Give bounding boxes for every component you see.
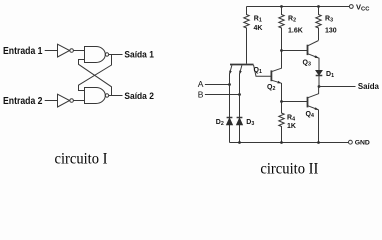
svg-text:D1: D1 [326, 71, 334, 79]
inverter 2 [58, 94, 74, 107]
wire feedback G2 to G1 [79, 60, 112, 96]
node A [228, 83, 231, 86]
wire VCC rail [247, 6, 350, 8]
wire Q3 base [282, 50, 308, 52]
svg-text:130: 130 [325, 27, 337, 34]
svg-text:R1: R1 [254, 15, 262, 23]
node output [318, 85, 321, 88]
wire input A [205, 84, 230, 86]
resistor R3 [316, 7, 337, 41]
transistor Q3 [303, 41, 320, 71]
svg-text:D3: D3 [246, 119, 254, 127]
transistor Q4 [306, 87, 319, 143]
svg-text:R3: R3 [325, 15, 333, 23]
node D3 bottom [238, 141, 241, 144]
node R2 top [280, 5, 283, 8]
node Q4 emitter [317, 141, 320, 144]
node R3 top [317, 5, 320, 8]
svg-text:B: B [198, 89, 204, 99]
svg-text:A: A [198, 79, 204, 89]
inverter 1 [58, 44, 74, 57]
resistor R1 [244, 7, 263, 64]
wire GND rail [230, 142, 349, 144]
svg-text:Q1: Q1 [254, 67, 262, 75]
svg-text:Saída: Saída [358, 82, 380, 91]
svg-text:circuito I: circuito I [55, 150, 108, 167]
wire output [319, 86, 356, 88]
node B [238, 93, 241, 96]
svg-text:R2: R2 [288, 15, 296, 23]
wire G2 output [109, 95, 123, 97]
wire Q4 base [282, 101, 308, 103]
svg-text:Saída 1: Saída 1 [124, 49, 153, 59]
wire inverter 1 to gate 1 [73, 50, 84, 52]
svg-text:circuito II: circuito II [260, 160, 318, 177]
node Q2 collector / Q3 base [280, 49, 283, 52]
wire feedback G1 to G2 [79, 55, 112, 91]
terminal VCC [349, 5, 353, 9]
transistor Q1 [229, 65, 270, 77]
NAND gate G2 [85, 88, 109, 104]
svg-text:4K: 4K [254, 25, 263, 32]
wire inverter 2 to gate 2 [73, 100, 84, 102]
wire G1 output [109, 54, 123, 56]
transistor Q2 [267, 51, 282, 102]
svg-text:R4: R4 [287, 114, 295, 122]
diode D1 [316, 70, 334, 86]
node R4 bottom [280, 141, 283, 144]
svg-text:Q4: Q4 [306, 111, 314, 119]
svg-text:Q2: Q2 [267, 84, 275, 92]
svg-text:1K: 1K [287, 123, 296, 130]
svg-text:Q3: Q3 [303, 59, 311, 67]
resistor R2 [279, 7, 303, 51]
svg-text:D2: D2 [216, 119, 224, 127]
wire A vertical [229, 74, 231, 143]
terminal GND [349, 140, 353, 144]
wire B vertical [239, 74, 241, 143]
diode D2 [216, 118, 233, 128]
svg-text:Entrada 2: Entrada 2 [3, 96, 43, 107]
wire input 1 [45, 50, 58, 52]
svg-text:GND: GND [355, 140, 370, 147]
wire input 2 [45, 100, 58, 102]
svg-text:1.6K: 1.6K [288, 27, 303, 34]
svg-text:Saída 2: Saída 2 [124, 91, 153, 101]
diode D3 [236, 118, 254, 128]
wire input B [205, 94, 240, 96]
node R4 top [280, 100, 283, 103]
svg-text:Entrada 1: Entrada 1 [3, 46, 43, 57]
resistor R4 [279, 102, 296, 143]
NAND gate G1 [85, 47, 109, 63]
